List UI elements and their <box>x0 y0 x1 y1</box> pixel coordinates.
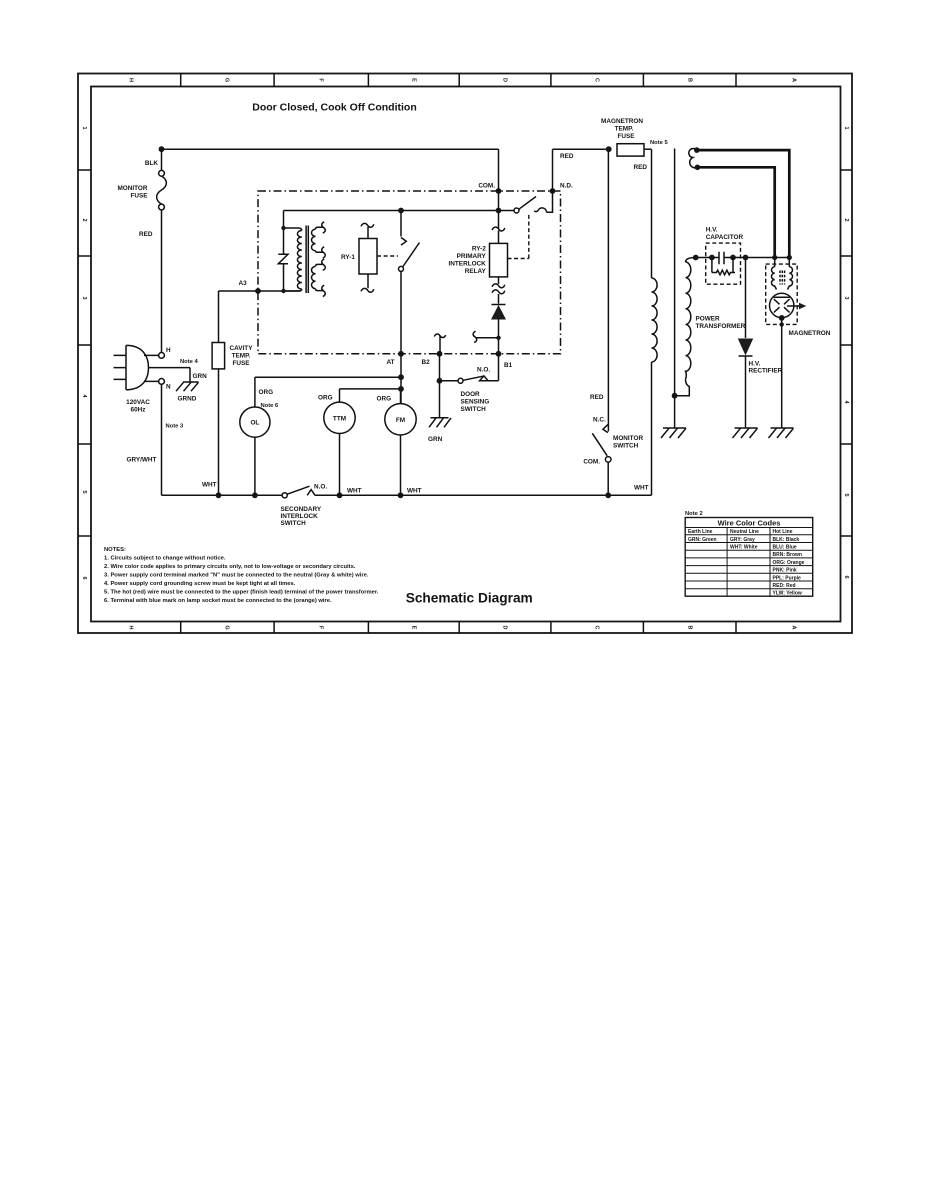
switch RY-1 interlock contact <box>399 213 420 271</box>
svg-text:H: H <box>166 347 171 354</box>
switch monitor switch N.C. <box>583 152 643 496</box>
wire bottom WHT bus right of interlock <box>315 494 652 496</box>
capacitor H.V. capacitor <box>706 227 744 285</box>
ground H.V. rectifier <box>733 428 758 438</box>
wire B2 drop to ground <box>439 354 441 418</box>
terminal H <box>159 353 165 359</box>
svg-text:Note 3: Note 3 <box>166 424 184 430</box>
transformer power transformer primary winding <box>652 278 658 362</box>
svg-text:TTM: TTM <box>333 415 346 422</box>
node FM bus junction <box>398 492 404 498</box>
node TTM bus junction upper <box>398 386 404 392</box>
wire bottom WHT bus left <box>162 494 283 496</box>
wire HV bus y=257.5 <box>696 257 790 259</box>
svg-text:1: 1 <box>81 126 87 129</box>
svg-text:PNK: Pink: PNK: Pink <box>773 568 797 574</box>
svg-text:B1: B1 <box>504 362 513 369</box>
svg-text:BRN: Brown: BRN: Brown <box>773 552 802 558</box>
ground GRN at B2 <box>428 418 451 443</box>
svg-text:SWITCH: SWITCH <box>281 520 307 527</box>
wire B2 disconnect stub <box>434 334 445 354</box>
sheet outer border frame <box>78 74 852 634</box>
svg-text:PPL: Purple: PPL: Purple <box>773 575 802 581</box>
svg-text:6: 6 <box>843 575 849 578</box>
svg-text:C: C <box>594 78 600 82</box>
svg-text:Note 5: Note 5 <box>650 140 668 146</box>
svg-text:GRN: Green: GRN: Green <box>688 537 717 543</box>
svg-text:WHT: WHT <box>634 485 649 492</box>
transformer core line <box>674 149 676 396</box>
svg-text:6: 6 <box>81 576 87 579</box>
svg-text:6. Terminal with blue mark on: 6. Terminal with blue mark on lamp socke… <box>104 598 332 604</box>
svg-text:RECTIFIER: RECTIFIER <box>749 368 783 375</box>
transformer HV secondary winding <box>675 258 696 396</box>
svg-text:Earth Line: Earth Line <box>688 529 713 535</box>
svg-text:FUSE: FUSE <box>617 133 635 140</box>
node door sensing tap <box>437 378 443 384</box>
wire color codes table <box>685 511 813 597</box>
switch primary interlock (COM-N.D.) <box>514 191 553 213</box>
node HV winding ground junction <box>672 393 678 399</box>
svg-text:TEMP.: TEMP. <box>615 126 634 133</box>
svg-text:DOOR: DOOR <box>461 391 481 398</box>
node filament lead left <box>772 255 777 260</box>
svg-text:N.C.: N.C. <box>593 417 606 424</box>
svg-text:GRN: GRN <box>428 436 443 443</box>
node B1 <box>496 351 502 357</box>
svg-text:MAGNETRON: MAGNETRON <box>789 330 831 337</box>
wire A1 drop from RY-1 switch <box>400 271 402 403</box>
wire core to ground <box>674 396 676 428</box>
svg-text:FUSE: FUSE <box>130 193 148 200</box>
svg-text:H: H <box>128 626 134 630</box>
svg-text:Note 4: Note 4 <box>180 359 198 365</box>
svg-text:N.O.: N.O. <box>314 484 327 491</box>
svg-text:BLK: BLK <box>145 160 159 167</box>
svg-text:RED: Red: RED: Red <box>773 583 796 589</box>
node monitor switch bus junction <box>605 492 611 498</box>
fuse magnetron temp fuse <box>601 118 668 171</box>
wire COM drop to primary wire and RY-2 <box>498 149 500 228</box>
svg-text:5. The hot (red) wire must be: 5. The hot (red) wire must be connected … <box>104 590 379 596</box>
wire top horizontal BLK/RED line <box>162 148 609 150</box>
wire dashed RY-2 actuator link <box>508 214 529 259</box>
fuse cavity temp fuse <box>212 291 253 495</box>
interlock dash-dot boundary box <box>258 191 561 354</box>
svg-text:RY-1: RY-1 <box>341 254 355 261</box>
node junction top-left <box>159 146 165 152</box>
notes block <box>104 547 379 604</box>
svg-text:GRN: GRN <box>193 373 208 380</box>
svg-text:60Hz: 60Hz <box>131 407 146 414</box>
svg-text:AT: AT <box>387 359 395 366</box>
ground GRND power cord <box>176 368 207 403</box>
svg-text:WHT: WHT <box>407 488 422 495</box>
svg-text:120VAC: 120VAC <box>126 399 150 406</box>
svg-text:3. Power supply cord terminal: 3. Power supply cord terminal marked "N"… <box>104 573 369 579</box>
svg-text:A3: A3 <box>239 280 248 287</box>
node N.D. on boundary <box>550 188 556 194</box>
svg-text:5: 5 <box>843 493 849 496</box>
svg-text:RED: RED <box>590 394 604 401</box>
svg-text:N.O.: N.O. <box>477 367 490 374</box>
svg-text:2. Wire color code applies to: 2. Wire color code applies to primary ci… <box>104 564 356 570</box>
svg-text:A: A <box>791 626 797 630</box>
svg-text:TRANSFORMER: TRANSFORMER <box>696 323 746 330</box>
svg-text:G: G <box>224 625 230 629</box>
svg-text:B: B <box>687 78 693 82</box>
svg-text:YLW: Yellow: YLW: Yellow <box>773 591 802 597</box>
svg-text:H.V.: H.V. <box>749 361 761 368</box>
svg-text:SENSING: SENSING <box>461 399 490 406</box>
node ORG bus junction <box>398 374 404 380</box>
svg-text:BLU: Blue: BLU: Blue <box>773 545 797 551</box>
wire ORG bus from OL to A1 <box>255 376 401 378</box>
svg-text:ORG: ORG <box>259 389 274 396</box>
svg-text:E: E <box>411 78 417 82</box>
left band ticks <box>78 170 91 536</box>
svg-text:Note 2: Note 2 <box>685 511 703 517</box>
svg-text:ORG: Orange: ORG: Orange <box>773 560 805 566</box>
svg-text:SWITCH: SWITCH <box>613 443 639 450</box>
svg-text:H: H <box>128 78 134 82</box>
svg-text:INTERLOCK: INTERLOCK <box>281 513 319 520</box>
magnetron tube <box>766 258 831 429</box>
svg-text:MONITOR: MONITOR <box>613 435 643 442</box>
wire GRY/WHT neutral from N to bottom bus <box>161 384 163 495</box>
svg-text:COM.: COM. <box>478 183 495 190</box>
svg-text:H.V.: H.V. <box>706 227 718 234</box>
wire B1 disconnect stub <box>473 331 498 342</box>
svg-text:Schematic Diagram: Schematic Diagram <box>406 591 533 606</box>
fuse monitor fuse <box>117 170 166 210</box>
svg-text:B2: B2 <box>422 359 431 366</box>
right band ticks <box>841 170 853 536</box>
svg-text:MONITOR: MONITOR <box>117 185 147 192</box>
svg-text:RY-2: RY-2 <box>472 246 486 253</box>
ground magnetron <box>769 428 794 438</box>
svg-text:2: 2 <box>843 218 849 221</box>
svg-text:WHT: WHT <box>202 482 217 489</box>
svg-text:2: 2 <box>81 218 87 221</box>
svg-text:RED: RED <box>560 153 574 160</box>
node A1 <box>398 351 404 357</box>
svg-text:SWITCH: SWITCH <box>461 406 487 413</box>
node RY-2 coil tap <box>496 208 502 214</box>
svg-text:Wire Color Codes: Wire Color Codes <box>718 519 781 528</box>
wire bus rise to transformer primary <box>651 362 653 495</box>
wire RED fuse to transformer primary <box>651 149 653 278</box>
wire RED from monitor fuse to plug terminal H <box>161 210 163 353</box>
node filament lead right <box>787 255 792 260</box>
switch secondary interlock N.O. <box>281 484 328 528</box>
svg-text:OL: OL <box>250 420 259 427</box>
svg-text:RELAY: RELAY <box>465 268 487 275</box>
svg-text:GRY: Gray: GRY: Gray <box>730 537 755 543</box>
top band ticks <box>181 74 736 87</box>
switch door sensing N.O. <box>440 354 499 413</box>
svg-text:4. Power supply cord grounding: 4. Power supply cord grounding screw mus… <box>104 581 296 587</box>
svg-text:1. Circuits subject to change: 1. Circuits subject to change without no… <box>104 556 226 562</box>
node RY-1 switch tap <box>398 208 404 214</box>
svg-text:WHT: White: WHT: White <box>730 545 758 551</box>
wire BLK drop to monitor fuse <box>161 149 163 170</box>
svg-text:G: G <box>224 78 230 82</box>
fan motor FM <box>377 389 422 495</box>
svg-text:TEMP.: TEMP. <box>232 353 251 360</box>
wire N.D. riser to top line <box>552 149 554 191</box>
svg-text:CAVITY: CAVITY <box>230 345 254 352</box>
svg-text:ORG: ORG <box>318 395 333 402</box>
svg-text:C: C <box>594 626 600 630</box>
diode surge protector <box>491 305 506 354</box>
node A3 <box>255 288 261 294</box>
svg-text:NOTES:: NOTES: <box>104 547 126 553</box>
node rectifier tap <box>743 255 749 261</box>
relay RY-2 primary interlock relay coil <box>449 227 508 303</box>
svg-text:PRIMARY: PRIMARY <box>457 253 487 260</box>
terminal N <box>159 379 165 385</box>
svg-text:Neutral Line: Neutral Line <box>730 529 759 535</box>
svg-text:Note 6: Note 6 <box>261 403 279 409</box>
svg-text:GRND: GRND <box>178 396 197 403</box>
wire A3 horizontal <box>219 290 301 292</box>
svg-text:B: B <box>687 626 693 630</box>
svg-text:D: D <box>502 78 508 82</box>
svg-text:ORG: ORG <box>377 396 392 403</box>
svg-text:3: 3 <box>81 296 87 299</box>
wire thick filament lead lower <box>697 167 774 257</box>
timer TTM <box>318 389 401 495</box>
bottom band ticks <box>181 622 736 634</box>
svg-text:N.D.: N.D. <box>560 183 573 190</box>
svg-text:FM: FM <box>396 417 405 424</box>
svg-text:RED: RED <box>634 164 648 171</box>
relay RY-1 coil <box>341 223 377 292</box>
node B1 stub junction <box>496 336 500 340</box>
svg-text:RED: RED <box>139 231 153 238</box>
svg-text:E: E <box>411 626 417 630</box>
node TTM bus junction <box>337 492 343 498</box>
wire dashed RY-1 actuator link <box>377 255 398 257</box>
ground transformer <box>661 428 686 438</box>
svg-text:POWER: POWER <box>696 316 721 323</box>
wire thick filament lead upper <box>697 150 790 257</box>
svg-text:CAPACITOR: CAPACITOR <box>706 234 744 241</box>
svg-text:BLK: Black: BLK: Black <box>773 537 800 543</box>
svg-text:FUSE: FUSE <box>232 360 250 367</box>
svg-text:5: 5 <box>81 490 87 493</box>
transformer low-voltage T1 <box>278 211 325 297</box>
svg-text:WHT: WHT <box>347 488 362 495</box>
node B2 <box>437 351 443 357</box>
svg-text:A: A <box>791 78 797 82</box>
svg-text:INTERLOCK: INTERLOCK <box>449 261 487 268</box>
diode H.V. rectifier <box>738 258 783 429</box>
transformer filament winding loops <box>689 147 700 170</box>
node magnetron fuse junction <box>606 146 612 152</box>
svg-text:MAGNETRON: MAGNETRON <box>601 118 643 125</box>
svg-text:SECONDARY: SECONDARY <box>281 506 322 513</box>
svg-text:1: 1 <box>843 126 849 129</box>
svg-text:Door Closed, Cook Off Conditio: Door Closed, Cook Off Condition <box>252 102 416 114</box>
svg-text:COM.: COM. <box>583 459 600 466</box>
svg-text:N: N <box>166 384 171 391</box>
wire primary circuit horizontal at y=210.5 <box>284 210 514 212</box>
svg-text:Hot Line: Hot Line <box>773 529 793 535</box>
svg-text:D: D <box>502 626 508 630</box>
node COM on boundary <box>496 188 502 194</box>
plug 120VAC supply <box>114 345 191 413</box>
lamp OL oven lamp <box>240 377 279 495</box>
svg-text:3: 3 <box>843 296 849 299</box>
svg-text:GRY/WHT: GRY/WHT <box>127 457 157 464</box>
